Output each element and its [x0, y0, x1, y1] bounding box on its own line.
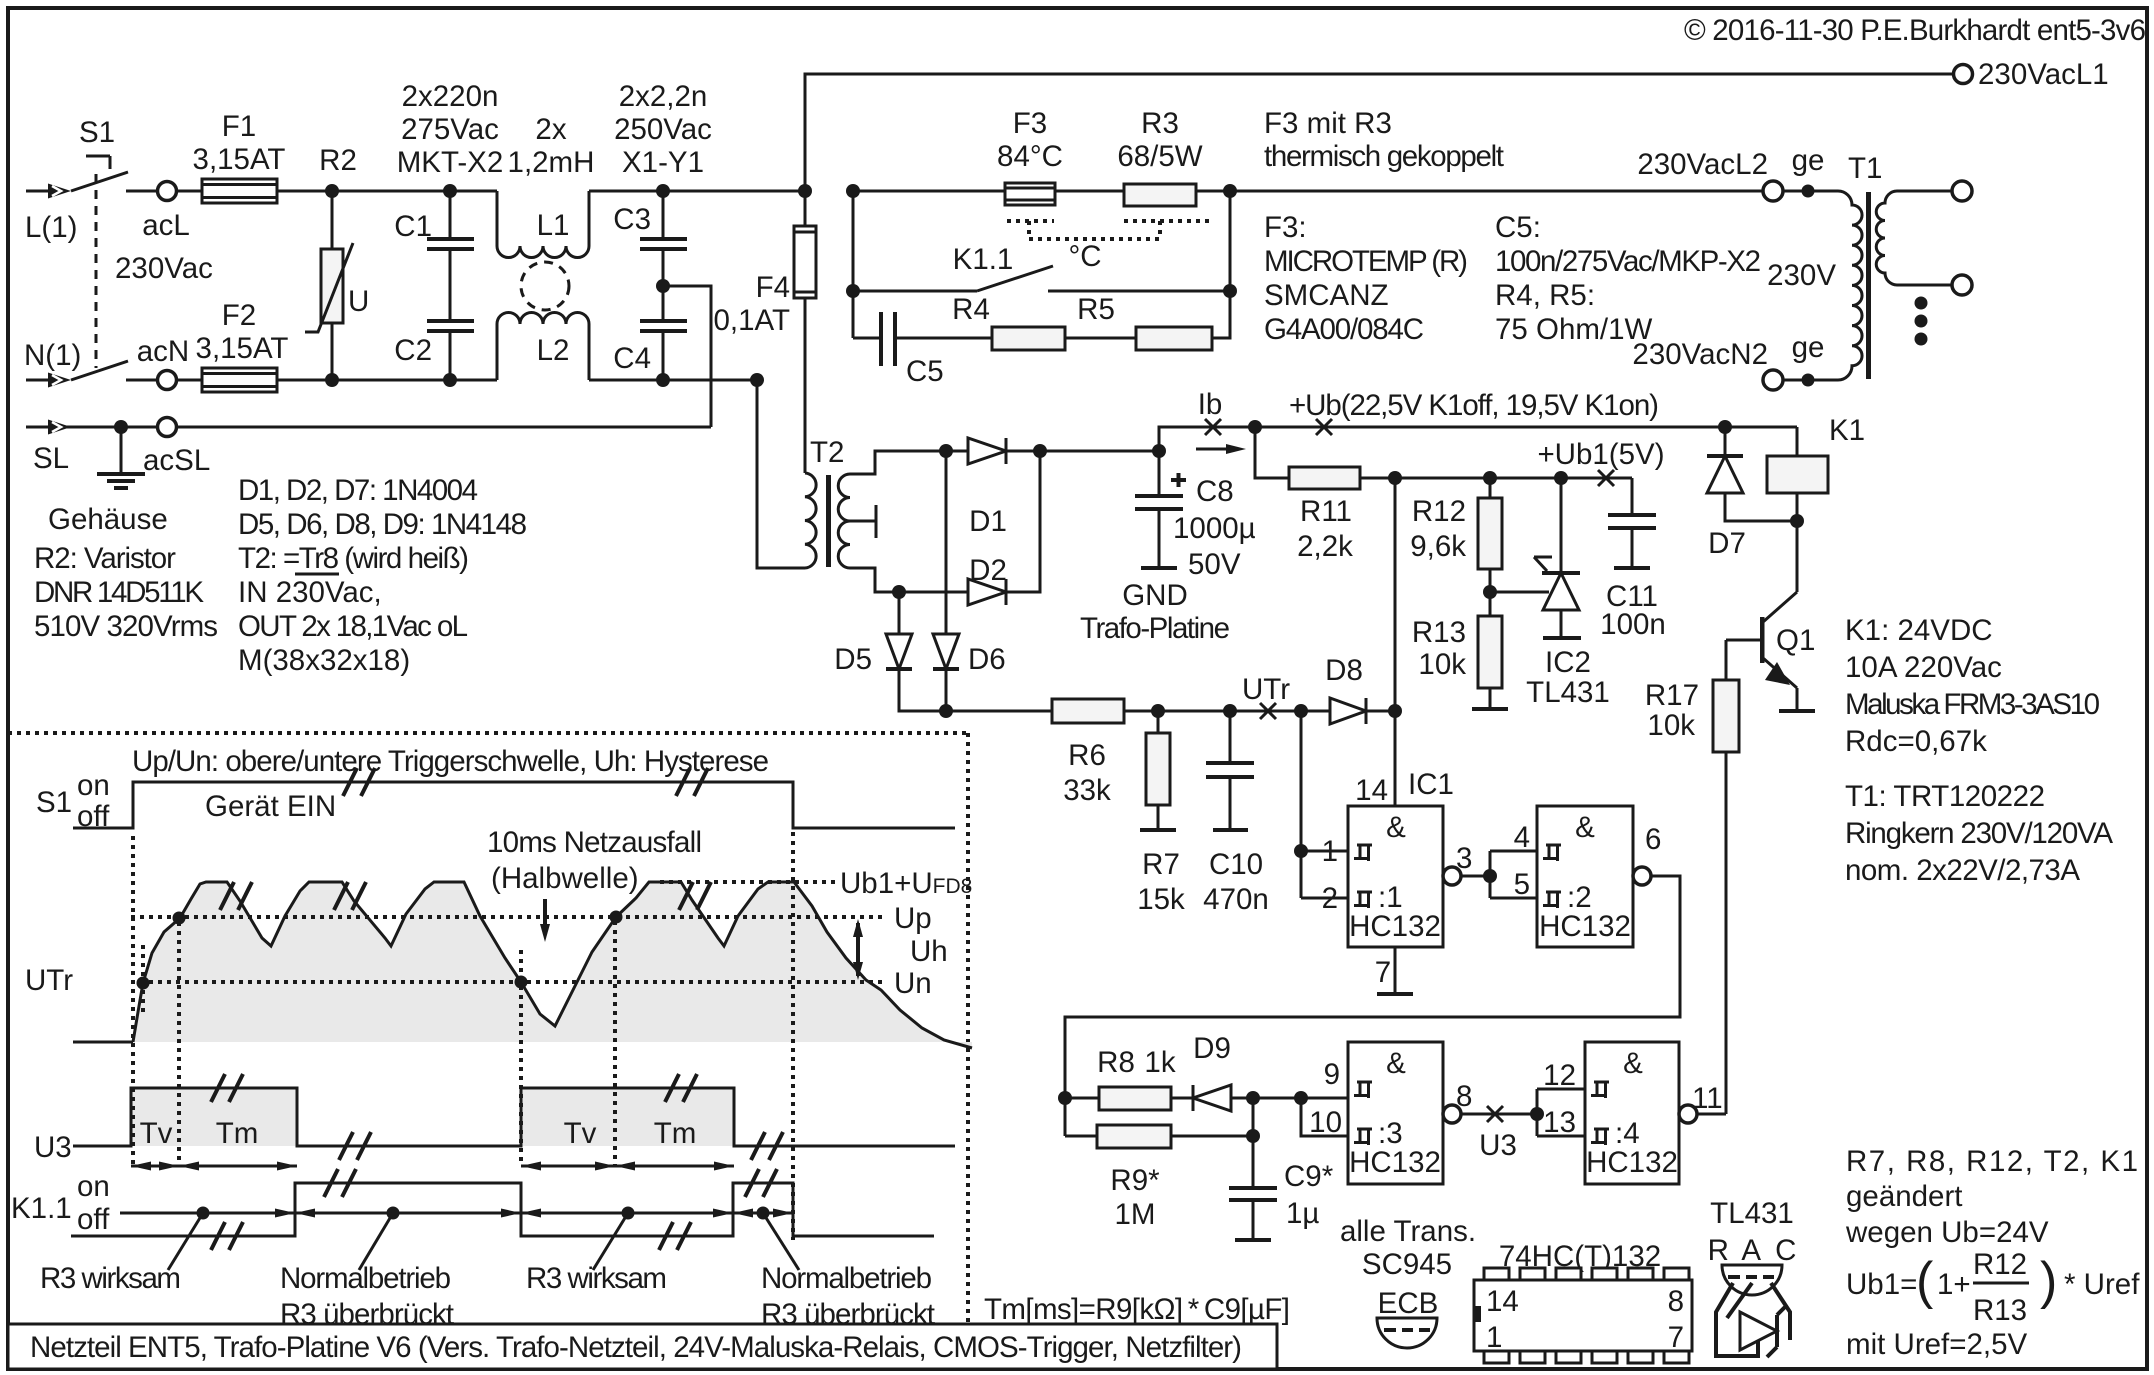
svg-text:10k: 10k	[1647, 709, 1695, 742]
svg-text:Up/Un: obere/untere Triggersch: Up/Un: obere/untere Triggerschwelle, Uh:…	[132, 745, 769, 778]
svg-text:F1: F1	[222, 110, 256, 143]
svg-text:1k: 1k	[1144, 1046, 1175, 1079]
svg-text:°C: °C	[1068, 240, 1101, 273]
svg-text:D5, D6, D8, D9: 1N4148: D5, D6, D8, D9: 1N4148	[238, 508, 527, 541]
svg-text:15k: 15k	[1137, 883, 1185, 916]
svg-text:R3: R3	[1141, 107, 1179, 140]
svg-text:100n: 100n	[1600, 608, 1666, 641]
svg-text:8: 8	[1668, 1285, 1684, 1318]
svg-text:off: off	[77, 800, 110, 833]
svg-text:T2: T2	[810, 436, 844, 469]
svg-text:C9*: C9*	[1284, 1160, 1334, 1193]
svg-text:M(38x32x18): M(38x32x18)	[238, 644, 410, 677]
svg-text:8: 8	[1456, 1080, 1472, 1113]
svg-text:SC945: SC945	[1362, 1248, 1452, 1281]
svg-text:OUT 2x 18,1Vac oL: OUT 2x 18,1Vac oL	[238, 610, 468, 643]
svg-text:250Vac: 250Vac	[614, 113, 712, 146]
svg-text:F3 mit R3: F3 mit R3	[1264, 107, 1392, 140]
svg-text:IC2: IC2	[1545, 646, 1591, 679]
svg-text:Tv: Tv	[140, 1117, 173, 1150]
svg-text:mit Uref=2,5V: mit Uref=2,5V	[1846, 1328, 2027, 1361]
svg-text:DNR 14D511K: DNR 14D511K	[34, 576, 204, 609]
svg-text:14: 14	[1355, 774, 1388, 807]
svg-text:T2: =Tr8 (wird heiß): T2: =Tr8 (wird heiß)	[238, 542, 469, 575]
svg-text:1: 1	[1486, 1321, 1502, 1354]
svg-text:HC132: HC132	[1539, 910, 1631, 943]
svg-text:F4: F4	[756, 271, 790, 304]
svg-text:R17: R17	[1645, 679, 1699, 712]
svg-text:+Ub(22,5V K1off, 19,5V K1on): +Ub(22,5V K1off, 19,5V K1on)	[1289, 389, 1659, 422]
svg-text:1000µ: 1000µ	[1173, 512, 1256, 545]
svg-text:IC1: IC1	[1408, 768, 1454, 801]
svg-text:R3 wirksam: R3 wirksam	[526, 1262, 667, 1295]
svg-text:SL: SL	[33, 442, 69, 475]
svg-text:Tm: Tm	[216, 1117, 259, 1150]
svg-text:ECB: ECB	[1378, 1287, 1439, 1320]
svg-text:TL431: TL431	[1526, 676, 1610, 709]
svg-text:K1: 24VDC: K1: 24VDC	[1845, 614, 1993, 647]
svg-text:2x: 2x	[535, 113, 566, 146]
svg-text:12: 12	[1543, 1059, 1576, 1092]
svg-text:Normalbetrieb: Normalbetrieb	[761, 1262, 932, 1295]
svg-text:3: 3	[1456, 842, 1472, 875]
svg-text:Netzteil ENT5, Trafo-Platine V: Netzteil ENT5, Trafo-Platine V6 (Vers. T…	[30, 1331, 1242, 1364]
svg-text:Ub1=: Ub1=	[1846, 1268, 1917, 1301]
svg-text:R12: R12	[1412, 495, 1466, 528]
svg-text:230VacL2: 230VacL2	[1637, 148, 1768, 181]
svg-text:Tv: Tv	[564, 1117, 597, 1150]
svg-text:UTr: UTr	[25, 964, 73, 997]
svg-text:F2: F2	[222, 299, 256, 332]
svg-text:Uh: Uh	[910, 935, 948, 968]
svg-text:off: off	[77, 1203, 110, 1236]
svg-text:L(1): L(1)	[25, 211, 77, 244]
svg-text:R9*: R9*	[1110, 1164, 1160, 1197]
svg-text:Tm[ms]=R9[kΩ] * C9[µF]: Tm[ms]=R9[kΩ] * C9[µF]	[984, 1293, 1290, 1326]
svg-text:U3: U3	[34, 1131, 72, 1164]
svg-text:+Ub1(5V): +Ub1(5V)	[1537, 438, 1664, 471]
svg-text:on: on	[77, 769, 110, 802]
svg-text:5: 5	[1514, 868, 1530, 901]
svg-text:IN 230Vac,: IN 230Vac,	[238, 576, 382, 609]
svg-text:R5: R5	[1077, 293, 1115, 326]
svg-text:Up: Up	[894, 902, 932, 935]
svg-text:R4, R5:: R4, R5:	[1495, 279, 1595, 312]
svg-text:T1: TRT120222: T1: TRT120222	[1845, 780, 2045, 813]
svg-text:on: on	[77, 1170, 110, 1203]
svg-text:MKT-X2: MKT-X2	[397, 146, 504, 179]
svg-text:TL431: TL431	[1710, 1197, 1794, 1230]
svg-text:84°C: 84°C	[997, 140, 1063, 173]
svg-text:230VacL1: 230VacL1	[1978, 58, 2109, 91]
svg-text:thermisch gekoppelt: thermisch gekoppelt	[1264, 140, 1504, 173]
svg-text:Ringkern 230V/120VA: Ringkern 230V/120VA	[1845, 817, 2113, 850]
svg-text:1µ: 1µ	[1286, 1197, 1319, 1230]
svg-text:UTr: UTr	[1242, 673, 1290, 706]
svg-text:C4: C4	[613, 342, 651, 375]
svg-text:10A 220Vac: 10A 220Vac	[1845, 651, 2002, 684]
svg-text:510V 320Vrms: 510V 320Vrms	[34, 610, 218, 643]
svg-text:&: &	[1386, 1047, 1406, 1080]
svg-text:2x220n: 2x220n	[402, 80, 499, 113]
svg-text:C8: C8	[1196, 475, 1234, 508]
svg-text:acN: acN	[137, 335, 189, 368]
svg-text:230V: 230V	[1767, 259, 1836, 292]
svg-text:4: 4	[1514, 821, 1530, 854]
svg-text:D6: D6	[968, 643, 1006, 676]
svg-text:14: 14	[1486, 1285, 1519, 1318]
svg-text:3,15AT: 3,15AT	[193, 143, 286, 176]
svg-text:&: &	[1575, 811, 1595, 844]
svg-text:R13: R13	[1973, 1294, 2027, 1327]
svg-text:1+: 1+	[1937, 1268, 1971, 1301]
svg-text:R7, R8, R12, T2, K1: R7, R8, R12, T2, K1	[1846, 1145, 2138, 1178]
svg-text:0,1AT: 0,1AT	[713, 304, 790, 337]
svg-text:6: 6	[1645, 823, 1661, 856]
svg-text:1M: 1M	[1115, 1198, 1156, 1231]
svg-text:wegen Ub=24V: wegen Ub=24V	[1845, 1216, 2049, 1249]
svg-text:D8: D8	[1325, 654, 1363, 687]
svg-text:275Vac: 275Vac	[401, 113, 499, 146]
svg-text:acL: acL	[142, 209, 190, 242]
svg-text:1,2mH: 1,2mH	[508, 146, 595, 179]
svg-text:2,2k: 2,2k	[1297, 530, 1353, 563]
svg-text:SMCANZ: SMCANZ	[1264, 279, 1389, 312]
svg-text:Un: Un	[894, 967, 932, 1000]
svg-text:230Vac: 230Vac	[115, 252, 213, 285]
svg-text:ge: ge	[1792, 331, 1825, 364]
svg-text:75 Ohm/1W: 75 Ohm/1W	[1495, 313, 1653, 346]
svg-text:nom. 2x22V/2,73A: nom. 2x22V/2,73A	[1845, 854, 2080, 887]
svg-text:2x2,2n: 2x2,2n	[619, 80, 708, 113]
svg-text:&: &	[1386, 811, 1406, 844]
svg-text:R2: R2	[319, 144, 357, 177]
svg-text:Gerät EIN: Gerät EIN	[205, 790, 336, 823]
svg-text:R4: R4	[952, 293, 990, 326]
svg-text:7: 7	[1375, 956, 1391, 989]
svg-text:50V: 50V	[1188, 548, 1241, 581]
svg-text:Normalbetrieb: Normalbetrieb	[280, 1262, 451, 1295]
svg-text:9: 9	[1324, 1058, 1340, 1091]
svg-text:acSL: acSL	[143, 444, 210, 477]
svg-text:C10: C10	[1209, 848, 1263, 881]
svg-text:D2: D2	[969, 554, 1007, 587]
svg-text:230VacN2: 230VacN2	[1632, 338, 1768, 371]
svg-text:MICROTEMP (R): MICROTEMP (R)	[1264, 245, 1468, 278]
svg-text:C5:: C5:	[1495, 211, 1541, 244]
svg-text:R13: R13	[1412, 616, 1466, 649]
svg-text:X1-Y1: X1-Y1	[622, 146, 704, 179]
svg-text:R3 wirksam: R3 wirksam	[40, 1262, 181, 1295]
svg-text:D5: D5	[834, 643, 872, 676]
svg-text:68/5W: 68/5W	[1117, 140, 1202, 173]
svg-text:U: U	[348, 285, 369, 318]
svg-text:HC132: HC132	[1586, 1146, 1678, 1179]
svg-text:D1, D2, D7: 1N4004: D1, D2, D7: 1N4004	[238, 474, 478, 507]
svg-text:K1.1: K1.1	[953, 243, 1014, 276]
svg-text:R6: R6	[1068, 739, 1106, 772]
svg-text:HC132: HC132	[1349, 910, 1441, 943]
svg-text:Q1: Q1	[1776, 624, 1815, 657]
svg-text:11: 11	[1692, 1082, 1723, 1115]
svg-text:D1: D1	[969, 505, 1007, 538]
svg-text:L1: L1	[537, 209, 570, 242]
svg-text:): )	[2040, 1252, 2057, 1310]
svg-text:Tm: Tm	[654, 1117, 697, 1150]
svg-text:GND: GND	[1122, 579, 1188, 612]
svg-text:C1: C1	[394, 210, 432, 243]
svg-text:1: 1	[1322, 835, 1338, 868]
svg-text:T1: T1	[1848, 152, 1882, 185]
svg-text:alle Trans.: alle Trans.	[1340, 1215, 1476, 1248]
svg-text:(Halbwelle): (Halbwelle)	[491, 862, 639, 895]
svg-text:D7: D7	[1708, 527, 1746, 560]
svg-text:10ms Netzausfall: 10ms Netzausfall	[487, 826, 702, 859]
svg-text:R11: R11	[1300, 495, 1352, 528]
svg-text:C3: C3	[613, 203, 651, 236]
svg-text:2: 2	[1322, 882, 1338, 915]
svg-text:R2: Varistor: R2: Varistor	[34, 542, 176, 575]
svg-text:Maluska FRM3-3AS10: Maluska FRM3-3AS10	[1845, 688, 2100, 721]
svg-text:Gehäuse: Gehäuse	[48, 503, 168, 536]
svg-text:G4A00/084C: G4A00/084C	[1264, 313, 1424, 346]
svg-text:10k: 10k	[1418, 648, 1466, 681]
svg-text:© 2016-11-30 P.E.Burkhardt ent: © 2016-11-30 P.E.Burkhardt ent5-3v6	[1684, 14, 2146, 47]
svg-text:F3: F3	[1013, 107, 1047, 140]
svg-text:Ib: Ib	[1198, 388, 1223, 421]
svg-text:33k: 33k	[1063, 774, 1111, 807]
svg-text:470n: 470n	[1203, 883, 1269, 916]
svg-text:10: 10	[1309, 1106, 1342, 1139]
svg-text:100n/275Vac/MKP-X2: 100n/275Vac/MKP-X2	[1495, 245, 1761, 278]
svg-text:R12: R12	[1973, 1248, 2027, 1281]
svg-text:HC132: HC132	[1349, 1146, 1441, 1179]
svg-text:Rdc=0,67k: Rdc=0,67k	[1845, 725, 1987, 758]
svg-text:9,6k: 9,6k	[1410, 530, 1466, 563]
svg-text:D9: D9	[1193, 1032, 1231, 1065]
svg-text:L2: L2	[537, 334, 570, 367]
svg-text:C5: C5	[906, 355, 944, 388]
svg-text:K1: K1	[1829, 414, 1865, 447]
svg-text:ge: ge	[1792, 144, 1825, 177]
svg-text:R8: R8	[1097, 1046, 1135, 1079]
svg-text:geändert: geändert	[1846, 1180, 1962, 1213]
svg-text:N(1): N(1)	[24, 339, 81, 372]
svg-text:S1: S1	[79, 116, 115, 149]
svg-text:13: 13	[1543, 1106, 1576, 1139]
svg-text:K1.1: K1.1	[11, 1192, 72, 1225]
svg-text:C2: C2	[394, 334, 432, 367]
svg-text:(: (	[1916, 1252, 1934, 1310]
svg-text:7: 7	[1668, 1321, 1684, 1354]
svg-text:* Uref: * Uref	[2064, 1268, 2140, 1301]
svg-text:S1: S1	[36, 786, 72, 819]
svg-text:Trafo-Platine: Trafo-Platine	[1080, 612, 1230, 645]
svg-text:&: &	[1623, 1047, 1643, 1080]
svg-text:R7: R7	[1142, 848, 1180, 881]
svg-text:U3: U3	[1479, 1129, 1517, 1162]
svg-text:F3:: F3:	[1264, 211, 1307, 244]
svg-text:R A C: R A C	[1708, 1234, 1797, 1267]
svg-text:3,15AT: 3,15AT	[196, 332, 289, 365]
